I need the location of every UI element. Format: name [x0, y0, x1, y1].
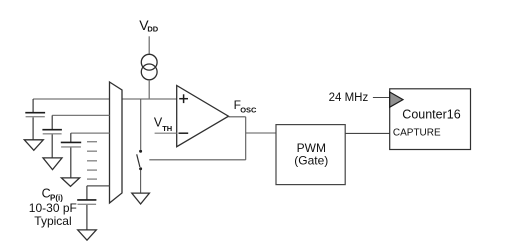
node FOSC label — [234, 98, 257, 115]
plus input marker — [179, 94, 188, 103]
svg-text:CAPTURE: CAPTURE — [393, 127, 441, 138]
more-inputs dashes — [87, 142, 97, 179]
wire cap C2 to mux input — [52, 114, 109, 116]
capacitor C3 — [61, 133, 81, 178]
capacitor C2 — [42, 115, 62, 157]
block PWM (Gate) — [276, 125, 345, 185]
wire output to PWM — [246, 132, 276, 134]
wire PWM to Counter16 CAPTURE — [345, 132, 390, 134]
ground (switch) — [132, 193, 150, 204]
wire output down — [245, 117, 247, 160]
node VTH label — [154, 116, 172, 134]
svg-text:(Gate): (Gate) — [294, 153, 328, 167]
minus input marker — [179, 132, 189, 134]
wire node to switch — [140, 99, 142, 150]
svg-text:24 MHz: 24 MHz — [329, 92, 369, 104]
svg-text:Typical: Typical — [34, 214, 71, 228]
wire sensor cap CP to mux input — [87, 185, 110, 187]
block Counter16 — [390, 89, 471, 150]
svg-text:Counter16: Counter16 — [402, 108, 460, 122]
current source I1 (two overlapping circles) — [141, 54, 157, 80]
capacitor C1 — [25, 99, 45, 140]
svg-text:10-30 pF: 10-30 pF — [29, 201, 77, 215]
capacitor CP(i) — [77, 186, 96, 230]
wire VDD to current source — [148, 36, 150, 54]
ground (C3) — [61, 178, 79, 187]
wire mux output to comparator — [122, 98, 177, 100]
wire 24 MHz to clock input — [373, 97, 390, 99]
ground (CP) — [78, 230, 97, 240]
analog mux U2 — [110, 82, 123, 203]
wire cap C1 to mux input — [33, 98, 109, 100]
wire feedback to switch — [149, 159, 245, 161]
svg-text:DD: DD — [147, 24, 158, 33]
comparator U1 — [177, 86, 229, 147]
wire comparator output — [229, 116, 246, 118]
wire current source to main node — [148, 80, 150, 99]
svg-text:OSC: OSC — [240, 106, 257, 115]
svg-text:TH: TH — [162, 124, 172, 133]
switch SW1 — [137, 150, 142, 193]
ground (C2) — [43, 158, 62, 170]
wire VTH input — [155, 132, 177, 134]
ground (C1) — [24, 140, 43, 151]
node VDD label — [139, 17, 159, 34]
label CP(i) value — [29, 187, 77, 228]
clock input triangle — [390, 92, 403, 107]
wire cap C3 to mux input — [71, 132, 110, 134]
